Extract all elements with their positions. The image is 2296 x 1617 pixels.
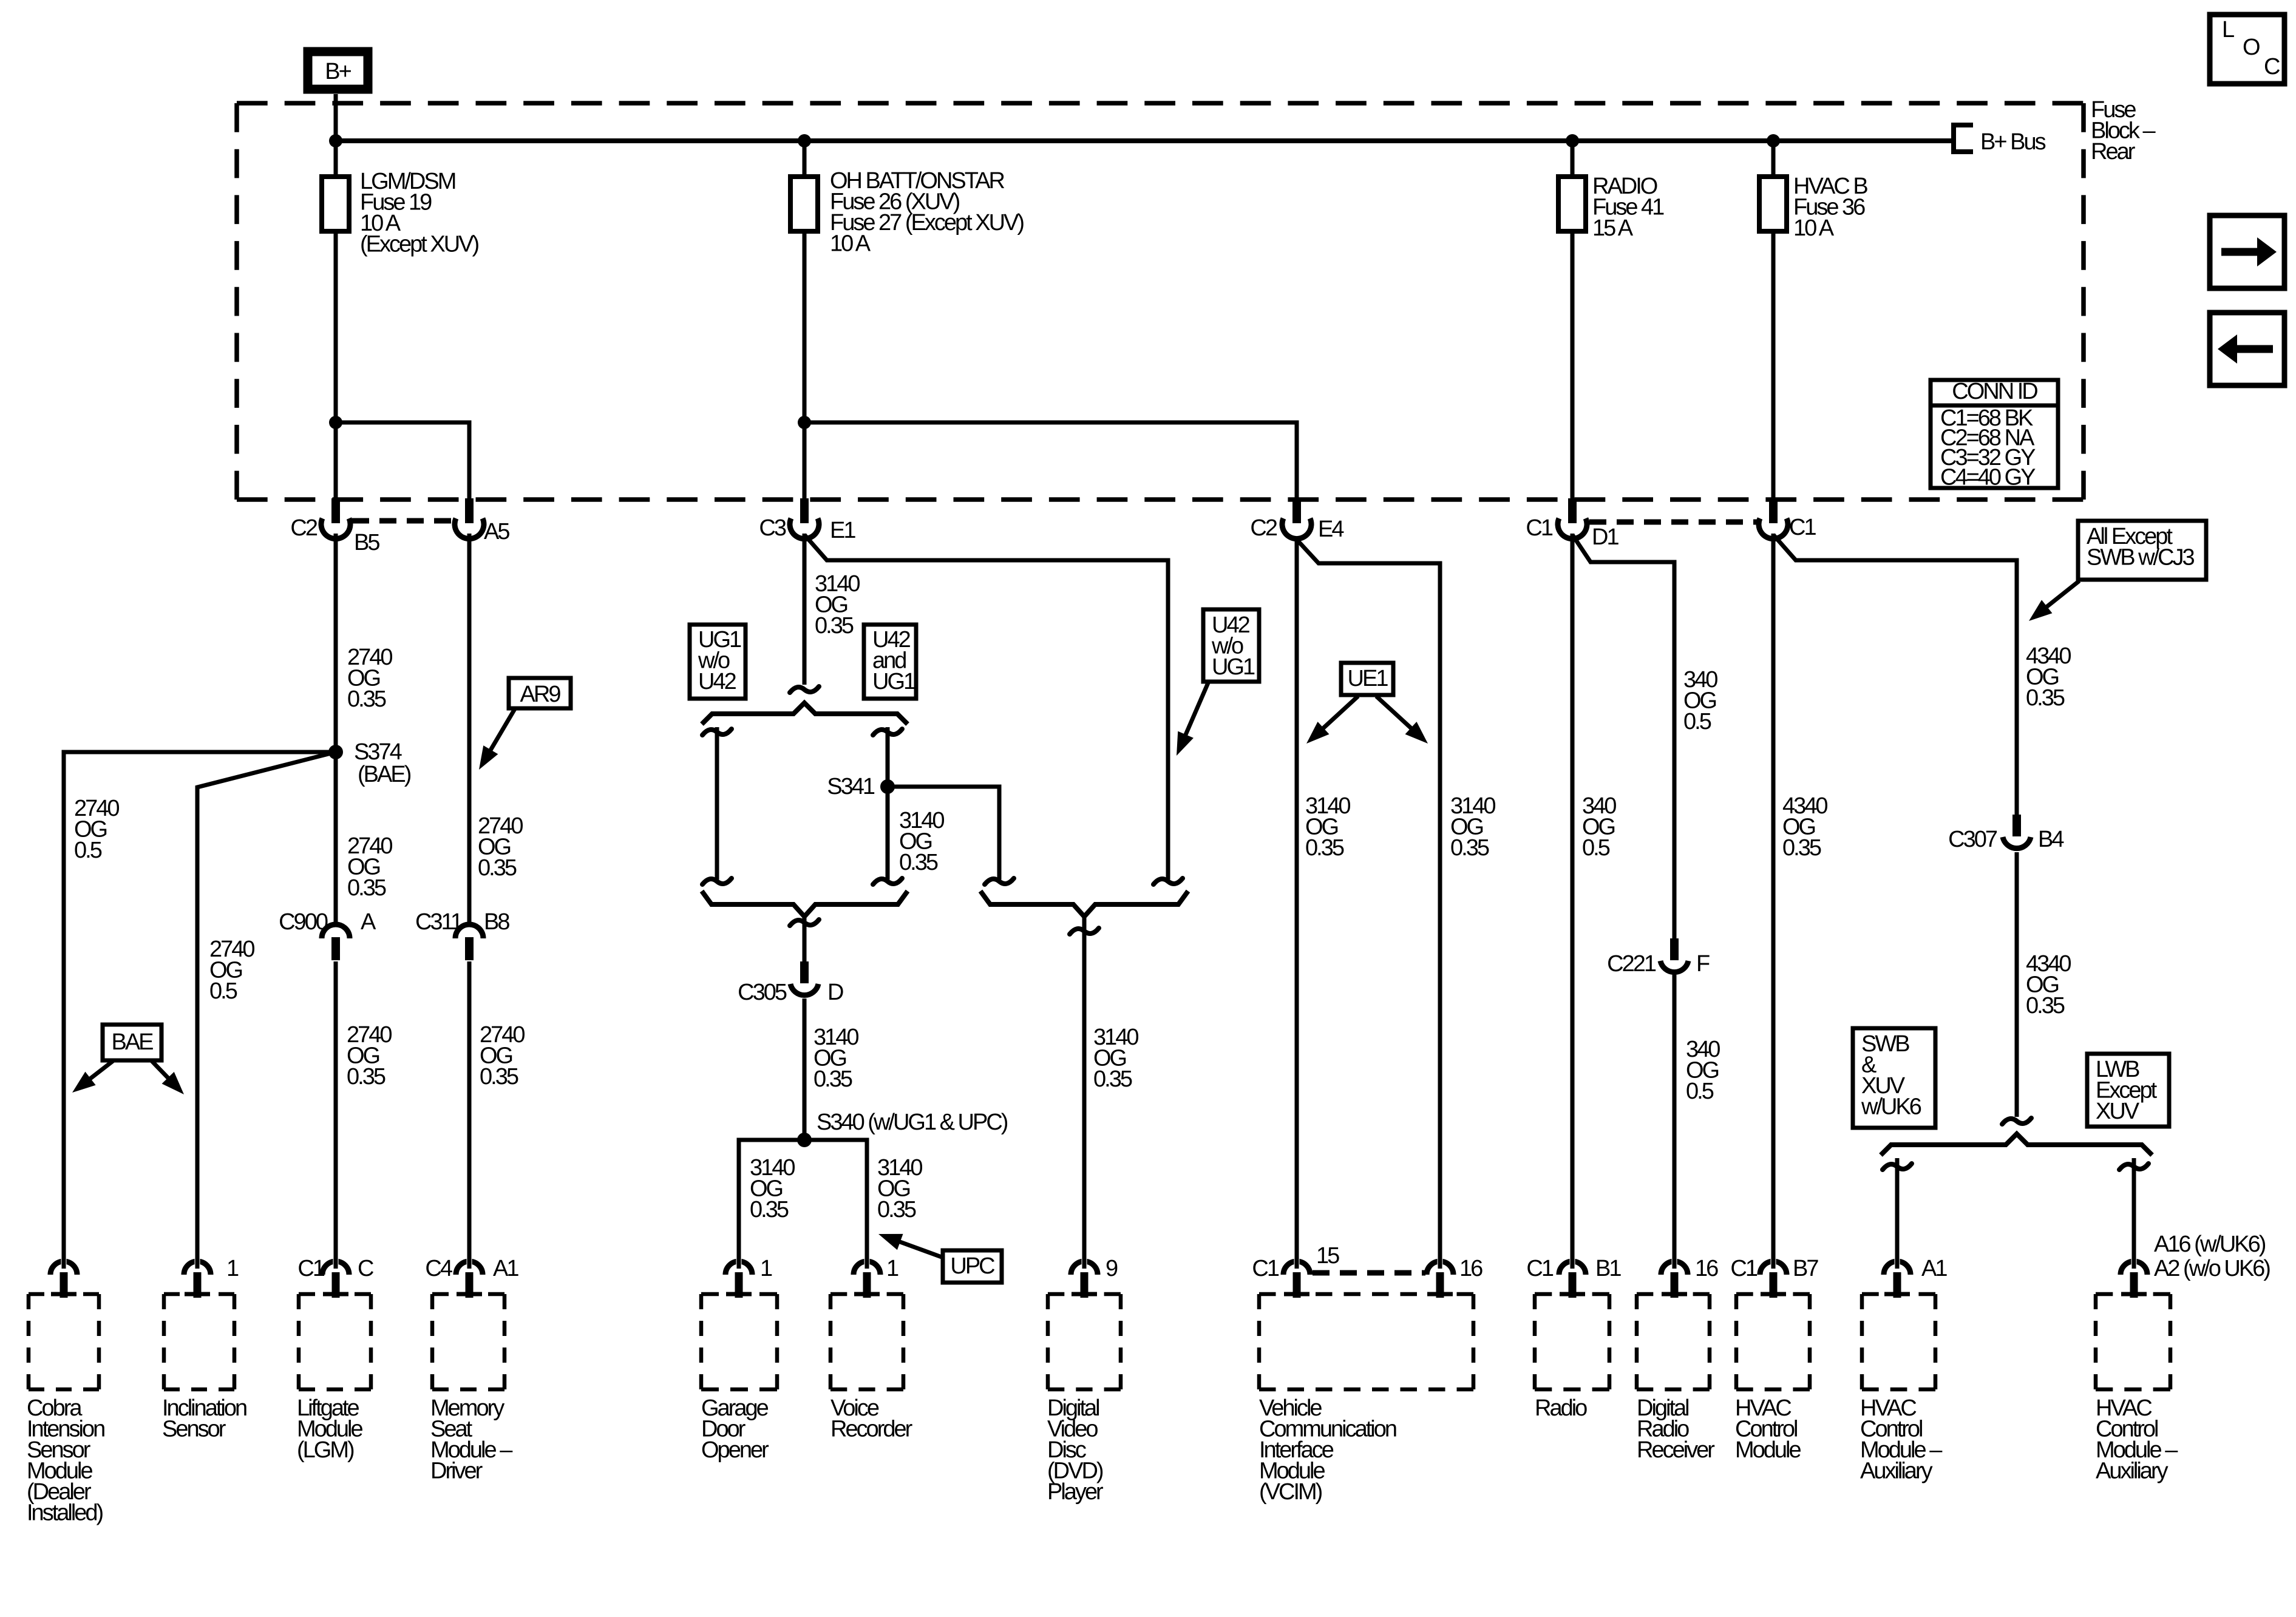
brace split HVAC aux — [1881, 1134, 2152, 1155]
connector C1 pin D1 — [1558, 498, 1587, 539]
wire B+ to bus — [334, 94, 338, 143]
tie dash C2 B5-A5 — [352, 518, 454, 524]
module HVAC Control Module Aux 2 — [2096, 1249, 2178, 1484]
break mark mid sub-wire top — [873, 729, 902, 735]
fuse F41 RADIO — [1558, 177, 1586, 231]
wire C305 to S340 — [803, 998, 807, 1140]
label S374 (BAE) — [354, 739, 411, 787]
callout All Except SWB w/CJ3 — [2078, 521, 2206, 580]
svg-text:UE1: UE1 — [1348, 666, 1388, 691]
svg-text:BAE: BAE — [111, 1029, 153, 1055]
wire bus to fuse F41 — [1571, 141, 1575, 179]
label E1 — [830, 518, 855, 543]
svg-text:A: A — [361, 909, 376, 935]
break mark E1 wire end — [790, 686, 819, 693]
module Garage Door Opener — [701, 1249, 777, 1463]
label wire 3140 OG 0.35 (DVD) — [1093, 1025, 1138, 1092]
svg-text:0.35: 0.35 — [347, 686, 386, 712]
arrow AR9 to A5 wire — [479, 709, 515, 770]
label wire 2740 OG 0.35 (Memory) — [480, 1022, 525, 1090]
fuse block dashed border — [237, 103, 2084, 500]
label Fuse Block - Rear — [2091, 97, 2156, 164]
callout U42 w/o UG1 — [1203, 609, 1259, 682]
svg-text:B5: B5 — [354, 530, 379, 555]
label F (C221) — [1696, 951, 1710, 977]
svg-text:Rear: Rear — [2091, 139, 2136, 164]
wire S374 to Cobra — [64, 752, 336, 1263]
B+ Bus terminal bracket — [1954, 125, 1973, 152]
svg-text:C1: C1 — [1730, 1256, 1757, 1281]
module Inclination Sensor — [162, 1249, 246, 1442]
label S341 — [827, 774, 875, 799]
label wire 3140 OG 0.35 (VCIM15) — [1305, 793, 1350, 861]
label wire 3140 OG 0.35 (C305) — [813, 1025, 858, 1092]
svg-text:0.35: 0.35 — [2026, 993, 2065, 1019]
svg-text:w/UK6: w/UK6 — [1861, 1094, 1921, 1120]
svg-text:Player: Player — [1047, 1479, 1104, 1505]
label wire 2740 OG 0.35 (A5) — [478, 813, 523, 881]
callout UPC — [943, 1250, 1002, 1283]
svg-text:C1: C1 — [1252, 1256, 1279, 1281]
svg-text:Installed): Installed) — [27, 1500, 103, 1526]
svg-text:0.5: 0.5 — [1683, 709, 1711, 734]
svg-text:CONN ID: CONN ID — [1952, 379, 2037, 404]
module Radio — [1526, 1249, 1621, 1421]
svg-text:C305: C305 — [738, 980, 787, 1005]
label fuse F19 — [360, 169, 479, 257]
wire C900 to Liftgate — [334, 961, 338, 1263]
svg-text:UG1: UG1 — [1212, 654, 1255, 680]
svg-text:L: L — [2222, 17, 2234, 42]
break mark aux2 top — [2119, 1164, 2148, 1170]
label fuse F36 — [1793, 174, 1867, 241]
label wire 3140 OG 0.35 (S341) — [899, 808, 944, 875]
svg-text:0.35: 0.35 — [478, 855, 517, 881]
connector C2 pin A5 — [455, 498, 484, 539]
svg-text:0.35: 0.35 — [1782, 835, 1821, 861]
svg-text:C2: C2 — [290, 515, 317, 541]
module Digital Radio Receiver — [1637, 1249, 1718, 1463]
module HVAC Control Module Aux 1 — [1860, 1249, 1947, 1484]
svg-text:C311: C311 — [415, 909, 463, 935]
svg-text:10 A: 10 A — [830, 231, 871, 257]
wire E1 down — [803, 534, 807, 685]
callout UG1 w/o U42 — [690, 625, 746, 699]
svg-text:S340 (w/UG1 & UPC): S340 (w/UG1 & UPC) — [817, 1110, 1008, 1135]
wire S341 branch — [888, 787, 999, 880]
svg-text:Module: Module — [1735, 1437, 1801, 1463]
svg-text:B1: B1 — [1595, 1256, 1621, 1281]
svg-text:16: 16 — [1695, 1256, 1718, 1281]
connector C221 pin F — [1660, 938, 1688, 972]
label C2 (E4) — [1250, 515, 1277, 541]
svg-text:0.5: 0.5 — [1686, 1079, 1714, 1104]
svg-text:SWB w/CJ3: SWB w/CJ3 — [2087, 545, 2195, 571]
wire bus to fuse F36 — [1771, 141, 1776, 179]
legend box LOC — [2210, 15, 2284, 84]
wire left sub-wire — [715, 727, 719, 880]
svg-text:C307: C307 — [1948, 827, 1997, 852]
svg-text:U42: U42 — [698, 669, 736, 694]
svg-text:Opener: Opener — [701, 1437, 769, 1463]
label wire 3140 OG 0.35 (Garage) — [750, 1155, 795, 1222]
wire to C305 — [803, 914, 807, 963]
callout LWB Except XUV — [2087, 1054, 2169, 1127]
wire fuse F36 down — [1771, 231, 1776, 501]
svg-text:B7: B7 — [1793, 1256, 1818, 1281]
wire E4 branch to VCIM 16 — [1297, 540, 1440, 1263]
connector C1 (HVAC) — [1759, 498, 1788, 539]
bus wire B+ — [333, 138, 1954, 143]
label C1 (HVAC) — [1789, 515, 1816, 540]
svg-text:(VCIM): (VCIM) — [1259, 1479, 1322, 1505]
svg-text:0.35: 0.35 — [1450, 835, 1489, 861]
module DVD Player — [1047, 1249, 1121, 1505]
svg-text:0.5: 0.5 — [209, 978, 237, 1004]
connector C3 pin E1 — [790, 498, 819, 539]
break mark above C305 — [790, 920, 819, 926]
label C3 (E1) — [759, 515, 786, 541]
svg-text:D1: D1 — [1592, 524, 1618, 550]
svg-text:B4: B4 — [2038, 827, 2064, 852]
svg-text:A2 (w/o UK6): A2 (w/o UK6) — [2154, 1256, 2270, 1281]
label wire 3140 OG 0.35 (Voice) — [877, 1155, 922, 1222]
break mark S341 branch bottom — [985, 878, 1014, 884]
svg-text:UG1: UG1 — [872, 669, 915, 694]
svg-text:1: 1 — [886, 1256, 898, 1281]
label B+ Bus — [1980, 129, 2046, 155]
svg-text:E4: E4 — [1318, 517, 1344, 542]
svg-text:15: 15 — [1316, 1243, 1339, 1269]
module VCIM — [1252, 1243, 1483, 1505]
callout U42 and UG1 — [864, 625, 916, 699]
label wire 340 OG 0.5 (Radio) — [1582, 793, 1616, 861]
wire bus to fuse F19 — [334, 141, 338, 179]
module Voice Recorder — [830, 1249, 913, 1442]
svg-text:A5: A5 — [484, 519, 509, 544]
svg-text:A1: A1 — [1921, 1256, 1947, 1281]
connector C2 pin B5 — [321, 498, 350, 539]
label wire 4340 OG 0.35 (HVAC) — [1782, 793, 1827, 861]
svg-text:B+: B+ — [325, 59, 351, 84]
connector C311 pin B8 — [455, 924, 483, 960]
svg-text:0.35: 0.35 — [347, 1064, 385, 1090]
svg-text:C4=40 GY: C4=40 GY — [1940, 465, 2036, 490]
label wire 340 OG 0.5 (C221 lower) — [1686, 1037, 1720, 1104]
junction LGM branch — [329, 416, 342, 429]
module Liftgate Module — [297, 1249, 373, 1463]
break mark left sub-wire bottom — [702, 878, 732, 884]
connector C305 pin D — [790, 961, 818, 995]
power symbol B+ — [308, 52, 368, 89]
label C307 — [1948, 827, 1997, 852]
svg-text:C221: C221 — [1607, 951, 1656, 977]
svg-text:10 A: 10 A — [1793, 215, 1835, 241]
arrow UPC to Voice wire — [878, 1234, 942, 1257]
svg-text:Driver: Driver — [430, 1459, 483, 1484]
label fuse F41 — [1592, 174, 1664, 241]
svg-text:0.35: 0.35 — [480, 1064, 518, 1090]
label fuse F26/F27 — [830, 168, 1024, 257]
fuse F36 HVAC B — [1759, 177, 1787, 231]
module Cobra Intension Sensor — [27, 1249, 104, 1526]
arrow BAE to Inclination wire — [152, 1061, 184, 1094]
label A5 — [484, 519, 509, 544]
svg-text:0.35: 0.35 — [347, 875, 386, 901]
svg-text:0.35: 0.35 — [899, 850, 938, 875]
junction bus/LGM — [329, 134, 342, 147]
wire S374 to Inclination — [197, 752, 336, 1263]
fuse F19 LGM/DSM — [322, 177, 349, 231]
label A (C900) — [361, 909, 376, 935]
arrow UE1 left — [1306, 696, 1358, 744]
svg-text:(LGM): (LGM) — [297, 1437, 354, 1463]
label wire 2740 OG 0.35 (above C900) — [347, 833, 392, 901]
svg-text:A16 (w/UK6): A16 (w/UK6) — [2154, 1232, 2266, 1257]
svg-text:16: 16 — [1459, 1256, 1483, 1281]
svg-text:C: C — [358, 1256, 373, 1281]
brace split UG1/U42 — [702, 703, 908, 724]
svg-text:0.35: 0.35 — [1305, 835, 1344, 861]
wire fuse F41 down — [1571, 231, 1575, 501]
svg-text:C3: C3 — [759, 515, 786, 541]
module HVAC Control Module — [1730, 1249, 1818, 1463]
svg-text:(Except XUV): (Except XUV) — [360, 232, 479, 257]
svg-text:C: C — [2264, 54, 2280, 80]
brace merge to DVD — [980, 891, 1188, 917]
label A16 (w/UK6) — [2154, 1232, 2266, 1257]
svg-text:C1: C1 — [1526, 515, 1552, 541]
wire to HVAC aux1 — [1895, 1158, 1900, 1263]
label E4 — [1318, 517, 1344, 542]
svg-text:15 A: 15 A — [1592, 215, 1634, 241]
wire to HVAC aux2 — [2132, 1158, 2136, 1263]
svg-text:(BAE): (BAE) — [358, 762, 411, 787]
svg-text:O: O — [2243, 35, 2260, 60]
arrow U42 w/o UG1 to wire — [1177, 683, 1208, 756]
junction bus/RADIO — [1566, 134, 1579, 147]
label D1 — [1592, 524, 1618, 550]
junction bus/OH BATT — [798, 134, 811, 147]
wire LGM branch to A5 — [336, 422, 469, 501]
svg-text:0.35: 0.35 — [750, 1197, 789, 1222]
label wire 2740 OG 0.5 (Inclination) — [209, 937, 254, 1004]
svg-text:C2: C2 — [1250, 515, 1277, 541]
wire fuse F26 down — [803, 231, 807, 501]
callout UE1 — [1341, 663, 1393, 695]
legend left-arrow box — [2210, 313, 2284, 385]
arrow All Except to wire — [2029, 581, 2079, 621]
wire A5 to C311 — [467, 534, 472, 925]
svg-text:0.5: 0.5 — [1582, 835, 1610, 861]
wire C311 to Memory Seat — [467, 961, 472, 1263]
svg-text:AR9: AR9 — [520, 682, 561, 707]
table CONN ID — [1931, 379, 2058, 490]
tie dash C1 D1-C1 — [1589, 520, 1758, 525]
svg-text:0.35: 0.35 — [815, 613, 854, 639]
brace merge to C305 — [702, 891, 908, 917]
label S340 — [817, 1110, 1008, 1135]
svg-text:Recorder: Recorder — [830, 1417, 913, 1442]
legend right-arrow box — [2210, 215, 2284, 288]
svg-text:B+ Bus: B+ Bus — [1980, 129, 2046, 155]
connector C2 pin E4 — [1282, 498, 1311, 539]
wire B5 to C900 — [334, 534, 338, 925]
splice S341 — [880, 779, 895, 794]
connector C307 pin B4 — [2003, 815, 2031, 849]
label C305 — [738, 980, 787, 1005]
svg-text:B8: B8 — [484, 909, 509, 935]
break mark left sub-wire top — [702, 729, 732, 735]
svg-text:0.35: 0.35 — [1093, 1066, 1132, 1092]
callout AR9 — [509, 678, 571, 708]
svg-text:E1: E1 — [830, 518, 855, 543]
svg-text:S374: S374 — [354, 739, 402, 765]
svg-text:C1: C1 — [1526, 1256, 1553, 1281]
svg-text:A1: A1 — [493, 1256, 518, 1281]
svg-text:C900: C900 — [279, 909, 328, 935]
svg-text:9: 9 — [1106, 1256, 1118, 1281]
break mark right sub-wire bottom — [1153, 878, 1183, 884]
svg-text:F: F — [1696, 951, 1710, 977]
wire C307 down — [2015, 852, 2019, 1117]
svg-text:C1: C1 — [1789, 515, 1816, 540]
svg-text:Sensor: Sensor — [162, 1417, 226, 1442]
svg-text:Receiver: Receiver — [1637, 1437, 1715, 1463]
label wire 2740 OG 0.35 (above S374) — [347, 645, 392, 712]
svg-text:D: D — [827, 980, 843, 1005]
label wire 3140 OG 0.35 (E1) — [815, 571, 860, 639]
svg-text:C4: C4 — [425, 1256, 452, 1281]
label wire 4340 OG 0.35 (upper) — [2026, 643, 2071, 711]
tie dash VCIM 15-16 — [1313, 1270, 1425, 1276]
splice S340 — [797, 1133, 812, 1147]
label B4 (C307) — [2038, 827, 2064, 852]
wire S340 to Garage Door Opener — [739, 1140, 804, 1263]
wire HVAC C1 to module — [1771, 534, 1776, 1263]
label wire 340 OG 0.5 (C221 upper) — [1683, 667, 1717, 734]
label C221 — [1607, 951, 1656, 977]
label C1 (D1) — [1526, 515, 1552, 541]
svg-text:0.35: 0.35 — [877, 1197, 916, 1222]
wire D1 branch to C221 — [1572, 535, 1674, 940]
svg-text:0.5: 0.5 — [74, 838, 102, 863]
break mark above DVD wire — [1070, 928, 1099, 934]
wire D1 to Radio — [1571, 534, 1575, 1263]
break mark mid sub-wire bottom — [873, 878, 902, 884]
break mark C307 wire end — [2002, 1118, 2031, 1124]
label C2 (B5) — [290, 515, 317, 541]
svg-text:Auxiliary: Auxiliary — [1860, 1459, 1933, 1484]
arrow BAE to Cobra wire — [72, 1061, 113, 1093]
wire to DVD player — [1082, 915, 1087, 1263]
wire mid sub-wire — [886, 727, 890, 880]
wire bus to fuse F26/27 — [803, 141, 807, 179]
label wire 3140 OG 0.35 (VCIM16) — [1450, 793, 1495, 861]
label C900 — [279, 909, 328, 935]
label C311 — [415, 909, 463, 935]
wire C221 to Digital Radio Receiver — [1673, 974, 1677, 1263]
svg-text:UPC: UPC — [950, 1253, 994, 1279]
label wire 4340 OG 0.35 (lower) — [2026, 951, 2071, 1019]
fuse F26/F27 OH BATT/ONSTAR — [790, 177, 818, 231]
wire HVAC branch to C307 — [1773, 535, 2017, 816]
svg-text:Auxiliary: Auxiliary — [2096, 1459, 2169, 1484]
wire E1 diagonal branch — [804, 535, 1168, 880]
label wire 2740 OG 0.35 (Liftgate) — [347, 1022, 392, 1090]
splice S374 — [328, 745, 343, 759]
label wire 2740 OG 0.5 (Cobra) — [74, 796, 119, 863]
svg-text:Radio: Radio — [1535, 1395, 1587, 1421]
wire OH BATT branch to E4 — [804, 422, 1297, 501]
break mark aux1 top — [1883, 1164, 1912, 1170]
connector C900 pin A — [322, 924, 350, 960]
svg-text:S341: S341 — [827, 774, 875, 799]
svg-text:C1: C1 — [297, 1256, 324, 1281]
svg-text:XUV: XUV — [2096, 1099, 2140, 1124]
arrow UE1 right — [1376, 696, 1428, 744]
junction OH BATT branch — [798, 416, 811, 429]
wire E4 to VCIM 15 — [1295, 538, 1299, 1263]
label D (C305) — [827, 980, 843, 1005]
label A2 (w/o UK6) — [2154, 1256, 2270, 1281]
callout SWB & XUV w/UK6 — [1853, 1028, 1935, 1128]
wire S340 to Voice Recorder — [804, 1140, 867, 1263]
label B8 (C311) — [484, 909, 509, 935]
svg-text:0.35: 0.35 — [2026, 685, 2065, 711]
junction bus/HVAC — [1767, 134, 1780, 147]
module Memory Seat Module — [425, 1249, 518, 1484]
label B5 — [354, 530, 379, 555]
svg-text:0.35: 0.35 — [813, 1066, 852, 1092]
svg-text:1: 1 — [226, 1256, 239, 1281]
wire fuse F19 down — [334, 231, 338, 501]
callout BAE — [103, 1025, 161, 1060]
svg-text:1: 1 — [760, 1256, 772, 1281]
